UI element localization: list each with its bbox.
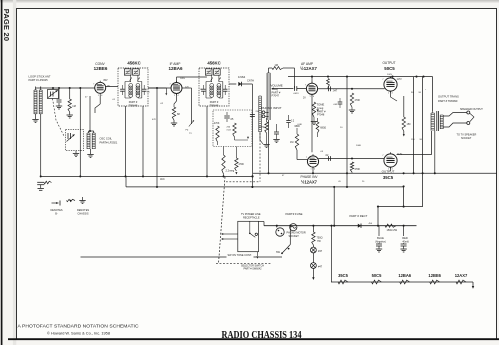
svg-text:.047: .047: [333, 90, 338, 93]
svg-text:B-: B-: [55, 213, 58, 216]
svg-text:TR6045: TR6045: [129, 104, 139, 107]
svg-text:#47: #47: [318, 266, 323, 269]
svg-text:6.8K: 6.8K: [298, 124, 303, 126]
svg-text:4: 4: [178, 95, 179, 97]
svg-text:470K: 470K: [355, 99, 361, 102]
svg-text:4: 4: [101, 95, 102, 97]
svg-text:150Ω 2W: 150Ω 2W: [387, 229, 398, 232]
svg-text:456KC: 456KC: [127, 61, 140, 66]
svg-text:TV POWER LINE: TV POWER LINE: [241, 213, 261, 216]
svg-text:12BA6: 12BA6: [398, 273, 411, 278]
svg-text:1meg: 1meg: [317, 107, 324, 110]
svg-text:12BA6: 12BA6: [168, 66, 183, 71]
svg-text:RECEPTACLE: RECEPTACLE: [243, 217, 260, 220]
svg-text:456KC: 456KC: [207, 61, 220, 66]
svg-text:35C5: 35C5: [383, 175, 394, 180]
svg-text:PHASE INV: PHASE INV: [300, 175, 318, 179]
svg-text:SOCKET: SOCKET: [461, 137, 472, 140]
svg-text:47K: 47K: [152, 119, 156, 121]
svg-text:RADIO CHASSIS 134: RADIO CHASSIS 134: [222, 329, 302, 341]
svg-text:1N64: 1N64: [238, 75, 246, 79]
svg-text:35C5: 35C5: [338, 273, 349, 278]
svg-text:OUTPUT: OUTPUT: [382, 61, 395, 65]
svg-text:1M: 1M: [72, 105, 75, 108]
svg-text:PART #: PART #: [317, 110, 326, 113]
svg-text:PART #: PART #: [210, 101, 219, 104]
svg-text:TR6045: TR6045: [210, 104, 220, 107]
svg-text:100K: 100K: [356, 145, 362, 147]
svg-text:PART # SW6042: PART # SW6042: [244, 268, 263, 271]
svg-text:470K: 470K: [214, 123, 220, 125]
svg-text:#47: #47: [318, 250, 323, 253]
svg-text:680Ω: 680Ω: [320, 127, 326, 130]
svg-text:1: 1: [174, 95, 175, 97]
svg-text:½12AX7: ½12AX7: [301, 179, 318, 184]
svg-text:© Howard W. Sams & Co., Inc. 1: © Howard W. Sams & Co., Inc. 1958: [47, 330, 110, 335]
svg-text:DENOTES: DENOTES: [77, 209, 89, 212]
svg-text:470K: 470K: [355, 168, 361, 171]
svg-text:750Ω: 750Ω: [317, 237, 323, 240]
svg-text:1M: 1M: [275, 64, 278, 67]
svg-text:680K: 680K: [295, 126, 301, 128]
svg-text:mmf: mmf: [227, 129, 232, 131]
svg-text:1: 1: [388, 169, 389, 171]
svg-text:7W: 7W: [317, 240, 321, 243]
svg-text:1: 1: [98, 95, 99, 97]
svg-text:4: 4: [392, 169, 393, 171]
svg-text:50C5: 50C5: [384, 66, 395, 71]
svg-text:12AX7: 12AX7: [455, 273, 468, 278]
svg-text:SW ON TONE CONT.: SW ON TONE CONT.: [228, 254, 253, 257]
svg-text:VOLUME: VOLUME: [271, 83, 283, 87]
svg-text:CONV: CONV: [95, 62, 105, 66]
svg-text:12BE6: 12BE6: [94, 66, 108, 71]
svg-text:AVC: AVC: [160, 178, 165, 181]
svg-text:470K: 470K: [238, 163, 244, 166]
svg-text:7: 7: [170, 84, 171, 86]
svg-text:1meg: 1meg: [258, 126, 265, 129]
svg-text:DENOTES: DENOTES: [50, 209, 62, 212]
svg-text:7: 7: [305, 84, 306, 86]
svg-text:1: 1: [311, 169, 312, 171]
svg-text:PHONO MOTOR: PHONO MOTOR: [287, 232, 306, 235]
svg-text:PAGE 20: PAGE 20: [2, 9, 11, 41]
svg-text:AF AMP: AF AMP: [301, 62, 314, 66]
svg-text:1: 1: [310, 96, 311, 98]
svg-text:4: 4: [314, 169, 315, 171]
svg-text:PART# FUSE: PART# FUSE: [286, 212, 303, 216]
svg-text:117V: 117V: [397, 79, 403, 81]
svg-text:IF AMP: IF AMP: [170, 62, 182, 66]
svg-text:80V: 80V: [104, 80, 109, 82]
svg-text:PART #: PART #: [129, 101, 138, 104]
svg-text:PART # RECT: PART # RECT: [350, 214, 368, 218]
svg-text:7: 7: [93, 84, 94, 86]
svg-text:4: 4: [392, 93, 393, 95]
svg-text:SPEAKER OUTPUT: SPEAKER OUTPUT: [460, 108, 483, 111]
svg-text:7: 7: [306, 157, 307, 159]
svg-text:A PHOTOFACT STANDARD NOTATION: A PHOTOFACT STANDARD NOTATION SCHEMATIC: [18, 324, 139, 330]
svg-text:2V: 2V: [303, 98, 306, 100]
svg-text:SELECTOR SWITCH: SELECTOR SWITCH: [241, 264, 264, 267]
svg-text:½12AX7: ½12AX7: [300, 66, 317, 71]
svg-text:12BE6: 12BE6: [428, 273, 441, 278]
svg-text:7: 7: [382, 155, 383, 157]
svg-text:TONE: TONE: [317, 103, 325, 107]
svg-text:50C5: 50C5: [372, 273, 383, 278]
svg-text:TO TV SPEAKER: TO TV SPEAKER: [457, 134, 477, 137]
svg-text:CHASSIS: CHASSIS: [78, 213, 89, 216]
svg-text:.0023: .0023: [293, 93, 299, 95]
svg-text:P7048: P7048: [317, 114, 325, 117]
svg-text:4: 4: [313, 96, 314, 98]
svg-text:100V: 100V: [387, 74, 393, 76]
svg-text:150: 150: [407, 123, 412, 126]
svg-text:1: 1: [388, 93, 389, 95]
svg-text:185V: 185V: [180, 78, 186, 80]
svg-text:7: 7: [382, 79, 383, 81]
svg-text:1M: 1M: [290, 141, 293, 144]
svg-text:PHONO INPUT: PHONO INPUT: [262, 106, 282, 110]
